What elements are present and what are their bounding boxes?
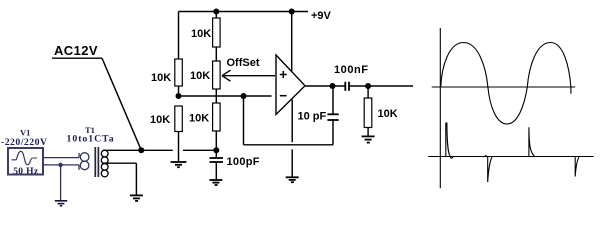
scope bottom plot horizontal axis [428, 156, 594, 158]
node AC wire / center column junction [213, 147, 219, 153]
ground (T1 center tap) [130, 195, 143, 201]
ground (load) [362, 136, 375, 142]
capacitor C2 10pF (feedback) [327, 114, 338, 120]
svg-text:10K: 10K [378, 108, 398, 120]
capacitor C3 100nF (output coupling) [345, 82, 349, 91]
scope plot vertical axis [439, 28, 441, 188]
wire R1 bottom to row [178, 86, 180, 96]
svg-text:50 Hz: 50 Hz [13, 167, 39, 177]
node output / load junction [365, 83, 371, 89]
scope spike pulse 3 (up) [529, 127, 535, 156]
resistor R3 (center top) [213, 18, 221, 47]
wire op-amp V- pin to ground (gap at crossover) [291, 100, 293, 143]
ground (op-amp V-) [286, 177, 299, 182]
svg-text:10K: 10K [150, 114, 170, 126]
wire op-amp output [305, 85, 345, 87]
wire AC horizontal (gap at ground crossover) [103, 149, 173, 151]
scope spike pulse 2 (down) [485, 156, 492, 182]
scope sine waveform (input) [441, 43, 571, 125]
ground (V1 return) [55, 201, 67, 206]
wire +9V supply rail [179, 11, 309, 13]
node V1 lower wire / ground junction [58, 163, 62, 167]
svg-text:100nF: 100nF [334, 64, 369, 76]
svg-text:-220/220V: -220/220V [1, 137, 48, 148]
op-amp U1 [276, 55, 305, 115]
svg-text:10K: 10K [190, 70, 210, 82]
node rail / center column junction [213, 9, 219, 15]
wire left column from rail [178, 12, 180, 60]
svg-text:AC12V: AC12V [54, 43, 98, 58]
wire op-amp V+ pin to rail [291, 12, 293, 72]
svg-text:+9V: +9V [311, 10, 332, 22]
node output junction [330, 83, 336, 89]
wire C1 to ground [215, 162, 217, 180]
wire R3 to R4 [215, 47, 217, 61]
svg-text:100pF: 100pF [227, 156, 260, 168]
scope spike pulse 1 (up) [446, 123, 453, 159]
svg-text:10K: 10K [189, 113, 209, 125]
ground (under C1) [209, 180, 222, 185]
node row / feedback junction [241, 93, 247, 99]
scope top plot horizontal axis [432, 86, 576, 88]
wire output right [349, 85, 413, 87]
source V1 box [8, 148, 43, 175]
wire feedback vertical from inverting node [243, 96, 245, 145]
wire AC12V diagonal pointer [102, 58, 141, 150]
node AC12V flag underline [52, 57, 102, 59]
potentiometer R4 (OffSet trimmer) [213, 61, 221, 89]
wire middle row to op-amp inverting input [179, 95, 272, 97]
node AC junction [138, 147, 144, 153]
wire T1 secondary center tap [102, 162, 136, 164]
resistor R2 (left lower) [175, 106, 183, 132]
wire down to ground [60, 165, 62, 201]
wire R2 bottom to ground [178, 132, 180, 163]
transformer T1 core [94, 147, 96, 177]
resistor R1 (left upper) [175, 59, 183, 86]
wire R6 to ground [367, 128, 369, 137]
svg-text:V1: V1 [20, 128, 30, 138]
wire feedback up to C2 [332, 120, 334, 145]
svg-text:OffSet: OffSet [227, 57, 260, 69]
node row / left column junction [176, 93, 182, 99]
scope spike pulse 4 (down) [575, 157, 579, 177]
capacitor C1 100pF [210, 158, 224, 162]
svg-text:10to1CTa: 10to1CTa [67, 134, 115, 145]
svg-text:10K: 10K [191, 28, 211, 40]
wire center column from rail [215, 12, 217, 19]
svg-text:10 pF: 10 pF [298, 111, 327, 123]
wire R4 bottom to R5 [215, 89, 217, 103]
wire V1 lower terminal to T1 [43, 164, 79, 166]
wire V1 upper terminal to T1 [43, 157, 79, 159]
wire wiper arrow of potentiometer to op-amp + input [222, 75, 275, 77]
wire R5 bottom to AC node and C1 [215, 131, 217, 158]
wire feedback horizontal [244, 144, 334, 146]
sine symbol inside V1 [12, 151, 38, 165]
svg-text:10K: 10K [151, 72, 171, 84]
resistor R6 (load) [364, 98, 372, 128]
node rail / op-amp V+ junction [289, 9, 295, 15]
ground (left column) [171, 162, 187, 167]
wire to load resistor [367, 86, 369, 98]
transformer T1 primary winding [78, 153, 80, 158]
resistor R5 (center lower) [213, 103, 221, 131]
wire C2 to output node [332, 86, 334, 114]
transformer T1 secondary winding [101, 150, 108, 177]
